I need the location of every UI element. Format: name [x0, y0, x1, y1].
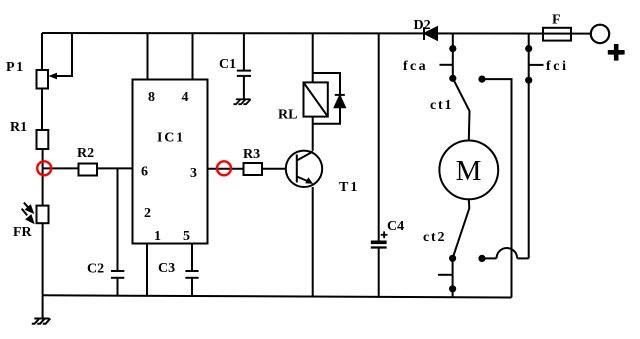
motor M	[439, 141, 498, 200]
svg-text:fca: fca	[403, 59, 428, 74]
wire C4 branch from top rail	[378, 33, 380, 241]
svg-text:6: 6	[141, 164, 148, 179]
svg-text:4: 4	[182, 90, 189, 105]
flyback diode across RL	[335, 95, 345, 107]
svg-text:R3: R3	[243, 147, 260, 162]
wire top rail	[42, 32, 591, 35]
wire fci label tick	[529, 64, 544, 66]
transistor T1	[286, 151, 322, 187]
junction dot fci top	[525, 45, 532, 52]
wire fca branch	[452, 33, 454, 78]
wire ct2 blade	[453, 199, 470, 258]
svg-text:F: F	[552, 13, 561, 28]
node red circle at FR/R1 junction	[37, 161, 51, 175]
svg-text:5: 5	[183, 229, 190, 244]
wire RL to T1 collector	[312, 117, 314, 151]
svg-text:R2: R2	[77, 146, 94, 161]
switch ct1 blade	[453, 78, 470, 140]
ground bottom left	[32, 295, 51, 323]
wire node to R2	[43, 167, 79, 169]
wire left branch vertical	[41, 33, 43, 70]
svg-text:1: 1	[154, 229, 161, 244]
svg-text:M: M	[456, 155, 482, 187]
photoresistor FR	[37, 206, 49, 224]
C4 plus sign	[381, 231, 388, 238]
resistor R1	[37, 130, 49, 149]
wire pin8 to top rail	[147, 33, 149, 80]
wire C2 to bottom rail	[117, 278, 119, 296]
wire R2 to pin6	[97, 167, 133, 169]
wire ct2 contact T-bar	[438, 274, 453, 276]
junction dot ct2 bottom contact	[449, 285, 456, 292]
resistor R2	[79, 164, 98, 176]
wire C1 branch from top rail	[243, 33, 245, 71]
svg-text:ct2: ct2	[423, 230, 446, 245]
wire fca alt contact to right drop	[482, 79, 512, 297]
wire pin5 to C3	[191, 244, 193, 272]
svg-text:IC1: IC1	[157, 131, 185, 146]
wire arc to ct2 alt contact	[482, 257, 497, 259]
capacitor C4 electrolytic	[371, 241, 387, 248]
svg-text:D2: D2	[414, 18, 431, 33]
wire C4 to bottom rail	[378, 248, 380, 297]
wire ct2 contact to bottom rail	[452, 258, 454, 297]
capacitor C1	[237, 71, 251, 76]
wire pin4 to top rail	[192, 33, 194, 80]
diode D2	[424, 27, 437, 40]
wire fci bottom horizontal	[517, 257, 529, 259]
junction dot ct2 top contact	[449, 255, 456, 262]
capacitor C3	[185, 271, 198, 278]
FR light arrow 1	[24, 203, 33, 213]
node pin3 red circle	[217, 161, 231, 175]
svg-text:fci: fci	[546, 59, 569, 74]
wire C3 to bottom rail	[191, 278, 193, 296]
wire RL top bracket	[313, 73, 340, 95]
wire P1 to R1	[41, 89, 43, 131]
FR light arrow 2	[22, 209, 33, 223]
svg-text:RL: RL	[278, 108, 297, 123]
wire RL branch from top rail	[312, 33, 314, 82]
svg-text:C1: C1	[219, 57, 236, 72]
plus terminal symbol	[608, 44, 625, 61]
T1 emitter arrowhead	[305, 177, 313, 184]
wire C1 to ground	[243, 76, 245, 99]
svg-text:8: 8	[148, 90, 155, 105]
wire R3 to T1 base	[262, 168, 286, 170]
wire T1 emitter to bottom rail	[312, 187, 314, 296]
terminal circle	[591, 25, 609, 43]
wire fca label tick	[440, 64, 453, 66]
svg-text:P1: P1	[6, 60, 25, 75]
svg-text:FR: FR	[13, 225, 33, 240]
svg-text:R1: R1	[10, 120, 27, 135]
wire fci branch vertical	[528, 33, 530, 258]
svg-text:T1: T1	[339, 180, 359, 195]
fuse F	[543, 28, 571, 41]
wire pin3 to R3	[208, 168, 244, 170]
wire bottom rail	[42, 295, 512, 297]
junction dot ct2 alt contact	[478, 255, 485, 262]
junction dot ct1 alt contact	[478, 76, 485, 83]
P1 wiper arrow	[49, 73, 58, 80]
wire C2 branch	[117, 168, 119, 271]
wire pin1 to bottom rail	[146, 244, 148, 296]
wire P1 wiper branch	[56, 33, 72, 76]
relay RL coil	[304, 82, 328, 116]
ground below C1	[233, 99, 250, 104]
junction dot fca bottom	[449, 75, 456, 82]
svg-text:3: 3	[190, 166, 197, 181]
svg-text:2: 2	[144, 206, 151, 221]
IC U1 body	[133, 80, 208, 244]
wire hop arc over vertical	[497, 248, 518, 258]
wire FR to bottom rail	[42, 223, 44, 295]
capacitor C2	[111, 271, 124, 278]
svg-text:ct1: ct1	[430, 98, 453, 113]
potentiometer P1	[37, 70, 49, 89]
junction dot fca top	[449, 45, 456, 52]
wire R1 to FR through node	[42, 149, 44, 206]
junction dot fci bottom	[525, 77, 532, 84]
svg-text:C3: C3	[158, 261, 175, 276]
wire RL bottom bracket	[313, 107, 340, 124]
svg-text:C4: C4	[387, 219, 404, 234]
svg-text:C2: C2	[87, 262, 104, 277]
resistor R3	[244, 163, 263, 175]
